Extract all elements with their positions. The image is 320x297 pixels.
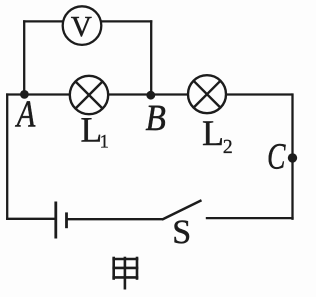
svg-text:V: V: [71, 11, 92, 43]
svg-text:C: C: [267, 137, 286, 178]
wire bottom left to battery: [6, 218, 56, 220]
label L1: [81, 110, 110, 153]
wire outer right vertical: [291, 93, 293, 219]
node A junction dot: [20, 90, 29, 99]
node C junction dot: [288, 153, 297, 162]
wire voltmeter branch left vertical: [23, 20, 25, 94]
voltmeter V1: [63, 6, 102, 45]
wire main horizontal A-B-C line: [6, 93, 292, 95]
svg-text:2: 2: [223, 136, 233, 158]
wire battery to switch: [67, 218, 163, 220]
svg-text:1: 1: [100, 131, 110, 152]
svg-text:S: S: [172, 214, 191, 251]
label L2: [202, 113, 233, 158]
lamp L1: [70, 76, 108, 114]
wire voltmeter branch top: [23, 20, 152, 22]
caption 甲: [114, 258, 137, 288]
lamp L2: [188, 75, 226, 113]
switch S: [162, 200, 202, 219]
wire outer left vertical: [6, 93, 8, 219]
svg-text:A: A: [14, 94, 36, 136]
battery B1: [56, 202, 67, 239]
svg-text:L: L: [202, 113, 224, 153]
svg-text:B: B: [146, 98, 166, 139]
wire switch to bottom right: [206, 217, 294, 219]
wire voltmeter branch right vertical: [150, 20, 152, 95]
node B junction dot: [146, 91, 155, 100]
